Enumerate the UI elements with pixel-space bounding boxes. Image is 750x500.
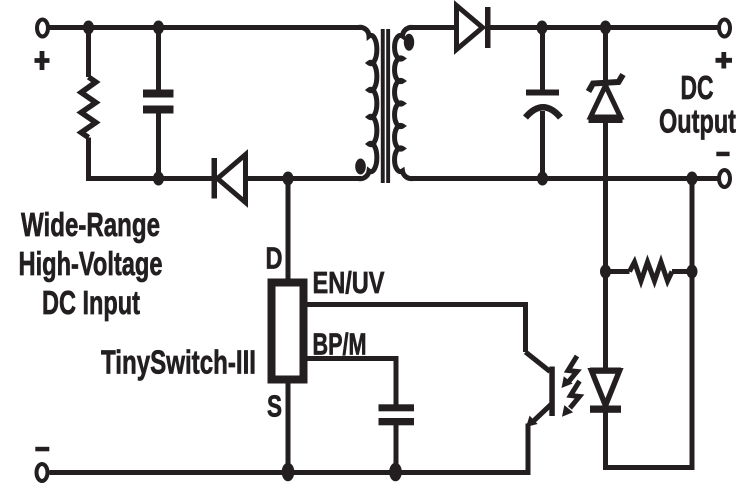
svg-text:TinySwitch-III: TinySwitch-III [101, 344, 256, 381]
svg-text:Output: Output [659, 103, 736, 140]
svg-text:DC Input: DC Input [42, 284, 140, 321]
svg-text:DC: DC [681, 69, 714, 106]
svg-text:High-Voltage: High-Voltage [19, 245, 163, 282]
svg-text:S: S [267, 389, 282, 424]
svg-text:D: D [266, 241, 283, 276]
svg-text:Wide-Range: Wide-Range [21, 206, 160, 243]
svg-text:BP/M: BP/M [313, 327, 367, 362]
svg-text:EN/UV: EN/UV [313, 265, 385, 300]
